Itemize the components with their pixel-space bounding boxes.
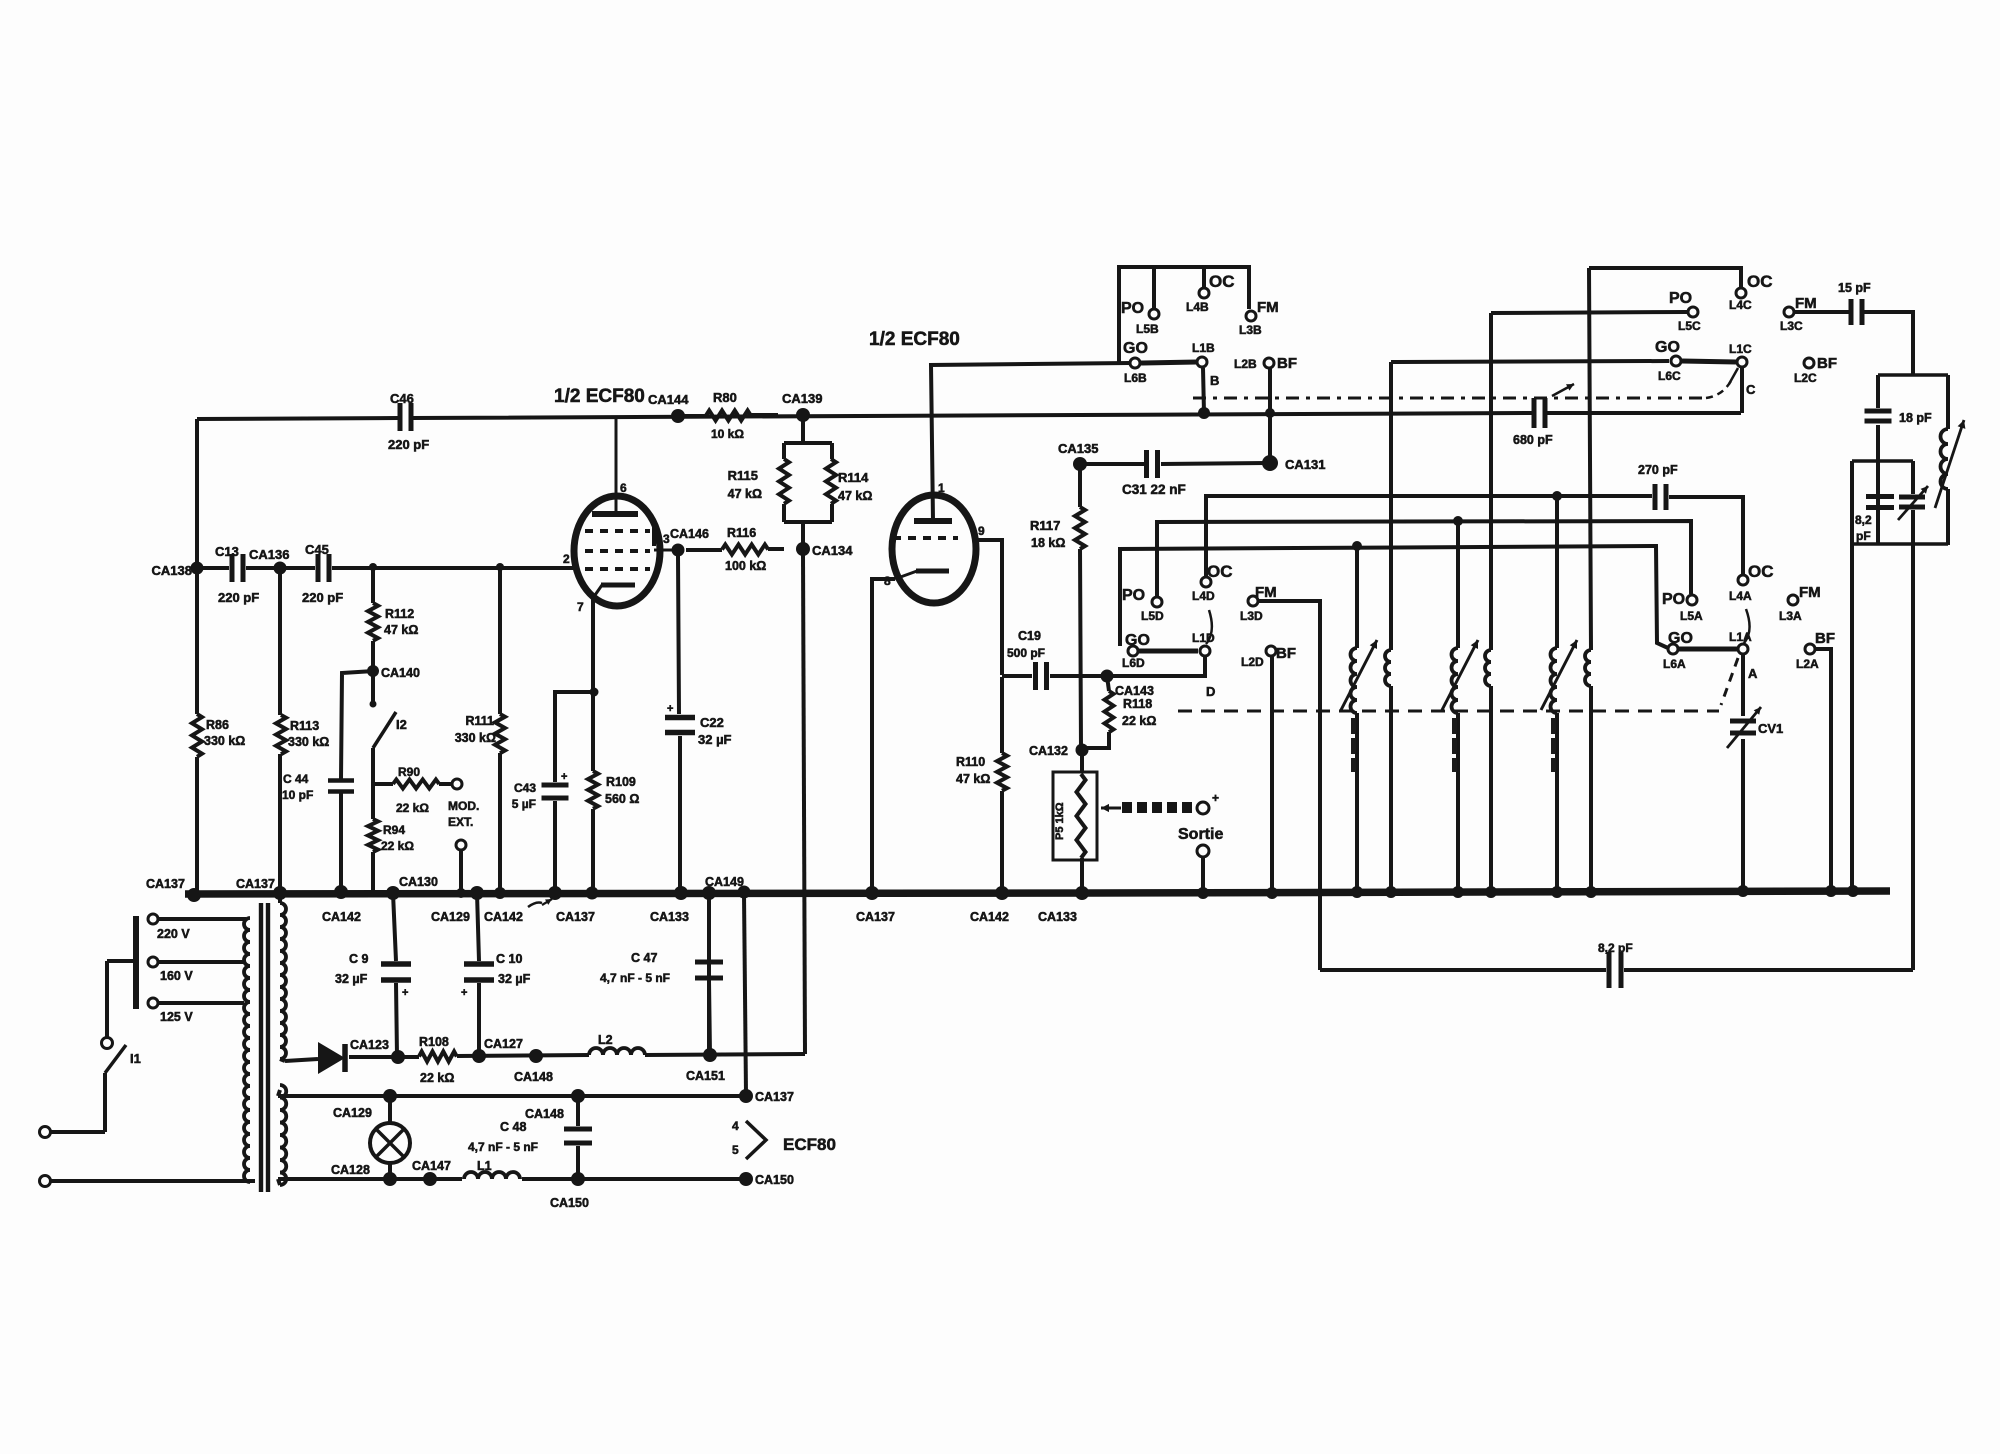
- resistor R113 330k: [276, 715, 329, 754]
- svg-text:R111: R111: [465, 714, 494, 728]
- svg-text:OC: OC: [1207, 562, 1233, 581]
- tuning coil group 3 secondary: [1585, 650, 1591, 686]
- bus node CA142 c: [970, 886, 1009, 924]
- wire cathode x=593 to bus: [591, 598, 595, 893]
- node on AVC rail below L1B: [1198, 407, 1275, 419]
- heater choke L1: [464, 1159, 520, 1179]
- wire 8.2pF feedback loop y=970: [1320, 968, 1913, 972]
- svg-text:CA137: CA137: [236, 877, 275, 891]
- svg-text:BF: BF: [1277, 355, 1297, 372]
- svg-text:C 10: C 10: [496, 952, 522, 966]
- terminal L2B BF: [1234, 355, 1297, 372]
- svg-text:CA149: CA149: [705, 875, 744, 889]
- capacitor C45 220pF: [302, 542, 343, 605]
- svg-text:5 µF: 5 µF: [512, 797, 536, 811]
- wire CV1 branch x=1743: [1741, 655, 1745, 891]
- svg-text:C22: C22: [700, 715, 724, 730]
- svg-text:CA146: CA146: [670, 527, 709, 541]
- svg-text:C 47: C 47: [631, 951, 657, 965]
- svg-text:CA136: CA136: [249, 547, 289, 562]
- svg-text:CA127: CA127: [484, 1037, 523, 1051]
- svg-text:32 µF: 32 µF: [498, 972, 531, 986]
- bus node sortie ground: [1197, 887, 1209, 899]
- tube V2 grid dashed: [893, 524, 985, 538]
- svg-text:9: 9: [978, 524, 985, 538]
- wire CA134 down crossing bus to rectifier rail: [803, 555, 805, 1054]
- svg-text:CA150: CA150: [550, 1196, 589, 1210]
- svg-text:8: 8: [884, 574, 891, 588]
- svg-text:OC: OC: [1748, 562, 1774, 581]
- switch I2: [370, 701, 407, 749]
- capacitor C44 10pF: [282, 772, 354, 802]
- svg-text:18 pF: 18 pF: [1899, 411, 1932, 425]
- wire OC-D line y=496 to 270pF to A-box OC: [1206, 496, 1743, 576]
- svg-text:270 pF: 270 pF: [1638, 463, 1678, 477]
- svg-text:CA150: CA150: [755, 1173, 794, 1187]
- svg-text:CA142: CA142: [322, 910, 361, 924]
- resistor R118 22k: [1105, 676, 1157, 732]
- bus node CA142 a: [322, 885, 361, 924]
- wire C10 branch x=479: [477, 893, 479, 1056]
- tube V3 ECF80 heater: [732, 1119, 836, 1159]
- svg-text:47 kΩ: 47 kΩ: [384, 623, 418, 637]
- wire tube2 pin9 to C19 and R110 to bus: [975, 540, 1002, 893]
- wire C-box top rail y=268 and OC stub: [1589, 268, 1741, 287]
- svg-text:8,2 pF: 8,2 pF: [1598, 941, 1633, 955]
- node dots on lines above coils: [1352, 491, 1562, 551]
- node CA128: [331, 1163, 397, 1186]
- svg-text:PO: PO: [1122, 587, 1145, 604]
- svg-text:C: C: [1746, 382, 1756, 397]
- mains transformer heater secondary: [278, 1085, 286, 1185]
- resistor R80 10k: [680, 390, 778, 441]
- bus node CA130: [386, 875, 438, 900]
- svg-text:CA135: CA135: [1058, 441, 1098, 456]
- svg-text:L3B: L3B: [1239, 323, 1262, 337]
- svg-text:47 kΩ: 47 kΩ: [956, 772, 990, 786]
- node CA135: [1058, 441, 1098, 471]
- svg-text:FM: FM: [1255, 584, 1277, 601]
- terminal L2C BF: [1794, 355, 1837, 385]
- svg-text:CA137: CA137: [556, 910, 595, 924]
- bus node CA137 second: [236, 877, 287, 900]
- wire L1B down to AVC rail: [1203, 368, 1204, 413]
- svg-text:2: 2: [563, 552, 570, 566]
- svg-text:10 kΩ: 10 kΩ: [711, 427, 744, 441]
- switch A section terminals: [1662, 562, 1821, 681]
- svg-text:330 kΩ: 330 kΩ: [455, 731, 496, 745]
- switch B wiper GO-L1B: [1141, 357, 1207, 367]
- node CA150 b: [739, 1172, 794, 1187]
- terminal L2A BF: [1796, 630, 1835, 671]
- wire x=680 CA146 to C22 to bus: [678, 556, 680, 893]
- svg-text:CA132: CA132: [1029, 744, 1068, 758]
- switch B section terminals PO GO OC FM: [1121, 272, 1279, 388]
- svg-text:L2D: L2D: [1241, 655, 1264, 669]
- bus node CA137 d: [586, 887, 599, 900]
- bus node at x744: [738, 886, 751, 899]
- svg-text:CA144: CA144: [648, 392, 689, 407]
- node CA136: [249, 547, 504, 575]
- wire coil group1 right x=1391: [1389, 362, 1393, 893]
- capacitor C13 220pF: [215, 544, 259, 605]
- capacitor C31 22nF: [1122, 450, 1186, 497]
- wire CA135 R117 CA132 chain x=1081: [1080, 464, 1081, 748]
- svg-text:Sortie: Sortie: [1178, 826, 1223, 843]
- svg-text:L2: L2: [598, 1033, 613, 1047]
- primary tap 160V: [148, 957, 246, 983]
- svg-text:GO: GO: [1123, 340, 1148, 357]
- svg-text:22 kΩ: 22 kΩ: [1122, 714, 1156, 728]
- svg-text:+: +: [461, 987, 467, 999]
- svg-text:L6A: L6A: [1663, 657, 1686, 671]
- svg-text:CA148: CA148: [514, 1070, 553, 1084]
- wire coil group2 right x=1491: [1489, 313, 1493, 893]
- svg-text:32 µF: 32 µF: [698, 732, 732, 747]
- node CA127: [472, 1037, 523, 1063]
- trimmer capacitor CV2: [1898, 486, 1928, 520]
- svg-text:D: D: [1206, 684, 1215, 699]
- svg-text:100 kΩ: 100 kΩ: [725, 559, 766, 573]
- svg-text:L6C: L6C: [1658, 369, 1681, 383]
- tube V2 1/2 ECF80 envelope: [869, 329, 976, 603]
- svg-text:EXT.: EXT.: [448, 815, 473, 829]
- svg-text:ECF80: ECF80: [783, 1135, 836, 1154]
- svg-text:CA137: CA137: [755, 1090, 794, 1104]
- wire trimmer branch x=1913: [1911, 461, 1915, 970]
- capacitor 270pF: [1638, 463, 1678, 510]
- svg-text:CA128: CA128: [331, 1163, 370, 1177]
- bus node CA133 b: [1038, 886, 1089, 924]
- svg-text:PO: PO: [1121, 300, 1144, 317]
- wire 18pF box rails: [1852, 375, 1948, 544]
- svg-text:CA134: CA134: [812, 543, 853, 558]
- svg-text:1/2 ECF80: 1/2 ECF80: [869, 329, 960, 350]
- resistor R111 330k: [455, 714, 505, 753]
- svg-text:47 kΩ: 47 kΩ: [838, 489, 872, 503]
- svg-text:CA142: CA142: [484, 910, 523, 924]
- svg-text:C31 22 nF: C31 22 nF: [1122, 482, 1186, 497]
- svg-text:R118: R118: [1123, 697, 1152, 711]
- bus node CV1: [1737, 885, 1749, 897]
- capacitor C48 4.7nF-5nF: [468, 1120, 592, 1154]
- svg-text:CA137: CA137: [146, 877, 185, 891]
- svg-text:CA133: CA133: [650, 910, 689, 924]
- svg-text:220 pF: 220 pF: [218, 590, 259, 605]
- svg-text:10 pF: 10 pF: [282, 788, 313, 802]
- tuning coil group 2 secondary: [1485, 650, 1491, 686]
- capacitor 8.2pF feedback: [1598, 941, 1633, 988]
- wire coil group2 left x=1458: [1456, 520, 1460, 893]
- node CA137 heater: [739, 1089, 794, 1104]
- svg-text:C46: C46: [390, 391, 414, 406]
- bus node CA142 b: [470, 886, 552, 924]
- svg-text:R116: R116: [727, 526, 756, 540]
- wire GO-D line y=547 to A-box GO: [1120, 546, 1668, 648]
- svg-text:47 kΩ: 47 kΩ: [728, 487, 762, 501]
- tube V1 anode: [592, 416, 638, 514]
- svg-text:220 pF: 220 pF: [388, 437, 429, 452]
- node CA134: [796, 542, 853, 558]
- wire L1C down to rail: [1740, 368, 1744, 413]
- capacitor 18pF: [1865, 411, 1933, 425]
- resistor R94 22k: [368, 819, 414, 853]
- wire lamp branch: [388, 1096, 392, 1179]
- svg-text:I1: I1: [130, 1051, 141, 1066]
- wire C19 line y=676: [1002, 674, 1103, 678]
- mains switch I1: [102, 1038, 141, 1133]
- svg-text:CA140: CA140: [381, 666, 420, 680]
- svg-text:C19: C19: [1018, 629, 1041, 643]
- resistor R109 560ohm: [588, 771, 639, 809]
- ganged switch dash line upper: [1193, 381, 1731, 398]
- svg-text:P5 1kΩ: P5 1kΩ: [1054, 802, 1066, 840]
- node CA148: [514, 1049, 553, 1084]
- switch A wiper GO-L1A: [1679, 609, 1750, 654]
- svg-text:CA138: CA138: [152, 563, 192, 578]
- node CA132: [1029, 744, 1089, 759]
- svg-text:L4C: L4C: [1729, 298, 1752, 312]
- capacitor 680pF on AVC rail: [1513, 398, 1553, 447]
- svg-text:560 Ω: 560 Ω: [605, 792, 639, 806]
- svg-text:18 kΩ: 18 kΩ: [1031, 536, 1065, 550]
- capacitor C10 32uF: [461, 952, 531, 999]
- wire x=1853 box2 left to bus: [1850, 461, 1854, 891]
- node CA151: [686, 1048, 725, 1083]
- variable capacitor CV1: [1727, 707, 1783, 748]
- primary tap 220V: [148, 914, 246, 941]
- svg-text:CA129: CA129: [333, 1106, 372, 1120]
- resistor R117 18k: [1030, 507, 1085, 550]
- svg-text:CA139: CA139: [782, 391, 822, 406]
- svg-text:PO: PO: [1662, 591, 1685, 608]
- wire FM-D line right and down to 8.2pF loop: [1258, 601, 1320, 970]
- svg-text:GO: GO: [1655, 339, 1680, 356]
- svg-text:+: +: [667, 703, 673, 715]
- potentiometer P5 1k: [1053, 750, 1097, 893]
- wire 18pF branch x=1878: [1876, 375, 1880, 544]
- svg-text:L5B: L5B: [1136, 322, 1159, 336]
- bus nodes coil groups: [1351, 886, 1597, 898]
- svg-text:R109: R109: [606, 775, 636, 789]
- bus node CA129 b: [431, 888, 470, 924]
- svg-text:6: 6: [620, 481, 627, 495]
- node CA148 heater: [525, 1089, 585, 1121]
- svg-text:FM: FM: [1257, 299, 1279, 316]
- svg-text:R117: R117: [1030, 518, 1060, 533]
- svg-text:L6D: L6D: [1122, 656, 1145, 670]
- capacitor 15pF: [1838, 281, 1871, 325]
- svg-text:L2B: L2B: [1234, 357, 1257, 371]
- wire C-box FM to 15pF to 18pF box: [1794, 312, 1913, 375]
- bus node BF-D: [1266, 887, 1278, 899]
- svg-text:C45: C45: [305, 542, 329, 557]
- svg-text:L1: L1: [477, 1159, 492, 1173]
- bus node CA137 c: [494, 886, 595, 924]
- svg-text:1: 1: [938, 481, 945, 495]
- wire C31 line y=464: [1080, 463, 1266, 464]
- svg-text:L1B: L1B: [1192, 341, 1215, 355]
- wire R118 bottom elbow to CA132: [1084, 732, 1109, 748]
- resistor R116 100k: [686, 526, 784, 573]
- resistor R112 47k: [368, 603, 418, 641]
- svg-text:L6B: L6B: [1124, 371, 1147, 385]
- svg-text:R108: R108: [419, 1035, 449, 1049]
- svg-text:+: +: [561, 771, 567, 783]
- svg-text:CA147: CA147: [412, 1159, 451, 1173]
- node CA146: [670, 527, 709, 557]
- svg-text:22 kΩ: 22 kΩ: [420, 1071, 454, 1085]
- svg-text:L2C: L2C: [1794, 371, 1817, 385]
- capacitor 8.2pF trimmer box: [1855, 497, 1894, 544]
- svg-text:CA129: CA129: [431, 910, 470, 924]
- svg-text:A: A: [1748, 666, 1758, 681]
- main ground bus: [185, 891, 1890, 894]
- switch D wiper GO-L1D: [1139, 610, 1212, 656]
- svg-text:R112: R112: [385, 607, 414, 621]
- wire coil group3 left x=1557: [1555, 496, 1559, 893]
- wire bus to heater node CA137: [744, 894, 746, 1094]
- svg-text:4: 4: [732, 1119, 739, 1133]
- mains transformer HT secondary: [280, 893, 286, 1061]
- wire tube2 cathode pin8 to bus: [872, 579, 895, 893]
- node CA147: [412, 1159, 451, 1186]
- wire left vertical x=197: [195, 419, 199, 893]
- tube V2 cathode: [884, 571, 949, 588]
- svg-text:L3C: L3C: [1780, 319, 1803, 333]
- svg-text:L5C: L5C: [1678, 319, 1701, 333]
- svg-text:R113: R113: [290, 719, 319, 733]
- svg-text:CA151: CA151: [686, 1069, 725, 1083]
- svg-text:R86: R86: [206, 718, 229, 732]
- bus node CA149: [702, 875, 744, 900]
- wire C9 branch x=396: [393, 893, 397, 1056]
- svg-text:R80: R80: [713, 390, 737, 405]
- node CA129 lamp top: [333, 1089, 397, 1120]
- svg-text:CA130: CA130: [399, 875, 438, 889]
- svg-text:R110: R110: [956, 755, 985, 769]
- resistor R90 22k with MOD EXT terminal: [373, 765, 479, 829]
- svg-text:32 µF: 32 µF: [335, 972, 368, 986]
- wire variable coil branch x=1948: [1946, 375, 1950, 545]
- wire y=362 line to C-box GO: [1391, 361, 1669, 362]
- svg-text:8,2: 8,2: [1855, 513, 1872, 527]
- svg-text:4,7 nF - 5 nF: 4,7 nF - 5 nF: [468, 1140, 538, 1154]
- svg-text:4,7 nF - 5 nF: 4,7 nF - 5 nF: [600, 971, 670, 985]
- voltage selector bar: [107, 916, 136, 1037]
- rectifier diode: [318, 1042, 345, 1074]
- wire top horizontal rail y≈415: [197, 413, 1741, 419]
- svg-text:MOD.: MOD.: [448, 799, 479, 813]
- svg-text:B: B: [1210, 373, 1219, 388]
- tuning coil group 1 secondary: [1385, 650, 1391, 686]
- svg-text:FM: FM: [1795, 295, 1817, 312]
- svg-text:22 kΩ: 22 kΩ: [396, 801, 429, 815]
- svg-text:CV1: CV1: [1758, 721, 1783, 736]
- svg-text:15 pF: 15 pF: [1838, 281, 1871, 295]
- svg-text:R90: R90: [398, 765, 420, 779]
- node CA144: [648, 392, 689, 423]
- capacitor C19 500pF: [1007, 629, 1047, 690]
- wire rectifier output rail y≈1056: [285, 1054, 805, 1061]
- node CA123: [350, 1038, 405, 1064]
- svg-text:CA123: CA123: [350, 1038, 389, 1052]
- terminal L2D BF: [1241, 645, 1296, 669]
- bus node CA137 left: [146, 877, 201, 902]
- wire A-box BF to bus: [1815, 649, 1831, 891]
- svg-text:C13: C13: [215, 544, 239, 559]
- tube V1 1/2 ECF80 envelope: [554, 386, 660, 606]
- svg-text:330 kΩ: 330 kΩ: [204, 734, 245, 748]
- wire C47 branch x=709: [709, 894, 710, 1055]
- switch C wiper GO-L1C: [1682, 357, 1756, 397]
- svg-text:500 pF: 500 pF: [1007, 646, 1045, 660]
- tube V1 cathode: [577, 585, 635, 614]
- primary tap 125V: [148, 998, 244, 1024]
- wire y=313 line to C-box PO: [1491, 312, 1687, 313]
- svg-text:GO: GO: [1668, 630, 1693, 647]
- svg-text:7: 7: [577, 600, 584, 614]
- resistor R108 22k: [419, 1035, 457, 1085]
- capacitor C46 220pF: [388, 391, 429, 452]
- tuning coil group 2 variable inductor: [1442, 640, 1478, 772]
- node CA139: [782, 391, 822, 422]
- svg-text:+: +: [1212, 791, 1219, 805]
- tube V1 grids dashed: [563, 524, 678, 569]
- wire C44 branch from CA140 to bus: [341, 671, 374, 891]
- wire C48 branch x=578: [576, 1096, 580, 1179]
- svg-text:BF: BF: [1815, 630, 1835, 647]
- svg-text:R114: R114: [838, 470, 869, 485]
- mains transformer core: [261, 903, 268, 1192]
- mains input terminal bottom: [40, 1176, 256, 1187]
- svg-text:L5D: L5D: [1141, 609, 1164, 623]
- node CA138: [152, 562, 204, 579]
- wire x=461 MOD EXT to bus: [459, 850, 463, 893]
- wire coil group1 left x=1357: [1355, 546, 1359, 893]
- svg-text:3: 3: [663, 532, 670, 546]
- resistor R86 330k: [192, 714, 245, 757]
- wire B-box rail and stubs: [1119, 267, 1249, 362]
- svg-text:I2: I2: [396, 717, 407, 732]
- switch C section terminals: [1655, 272, 1817, 383]
- svg-text:330 kΩ: 330 kΩ: [288, 735, 329, 749]
- svg-text:L2A: L2A: [1796, 657, 1819, 671]
- wire L2B BF down to CA131: [1268, 368, 1272, 458]
- pilot lamp: [370, 1123, 410, 1163]
- svg-text:L4B: L4B: [1186, 300, 1209, 314]
- svg-text:L3A: L3A: [1779, 609, 1802, 623]
- svg-text:FM: FM: [1799, 584, 1821, 601]
- switch D section terminals: [1122, 562, 1277, 699]
- wire CA149 to CA151: [707, 894, 711, 1054]
- node CA150 a: [550, 1172, 589, 1210]
- wire coil group3 right x=1591: [1589, 268, 1591, 893]
- svg-text:GO: GO: [1125, 632, 1150, 649]
- svg-text:680 pF: 680 pF: [1513, 433, 1553, 447]
- capacitor C9 32uF: [335, 952, 411, 999]
- bus node CA137 tube2: [856, 886, 895, 924]
- tuning coil group 1 variable inductor: [1341, 640, 1377, 772]
- svg-text:C43: C43: [514, 781, 536, 795]
- wire L1D wiper down-left to CA143: [1111, 657, 1205, 676]
- wire C43 branch x=555: [555, 692, 594, 893]
- svg-text:R94: R94: [383, 823, 405, 837]
- node CA131: [1262, 455, 1325, 472]
- output Sortie arrow and shielded lead: [1101, 791, 1223, 893]
- wire BF-D down to bus: [1270, 656, 1274, 893]
- wire x=280 CA136 down to bus: [278, 568, 282, 893]
